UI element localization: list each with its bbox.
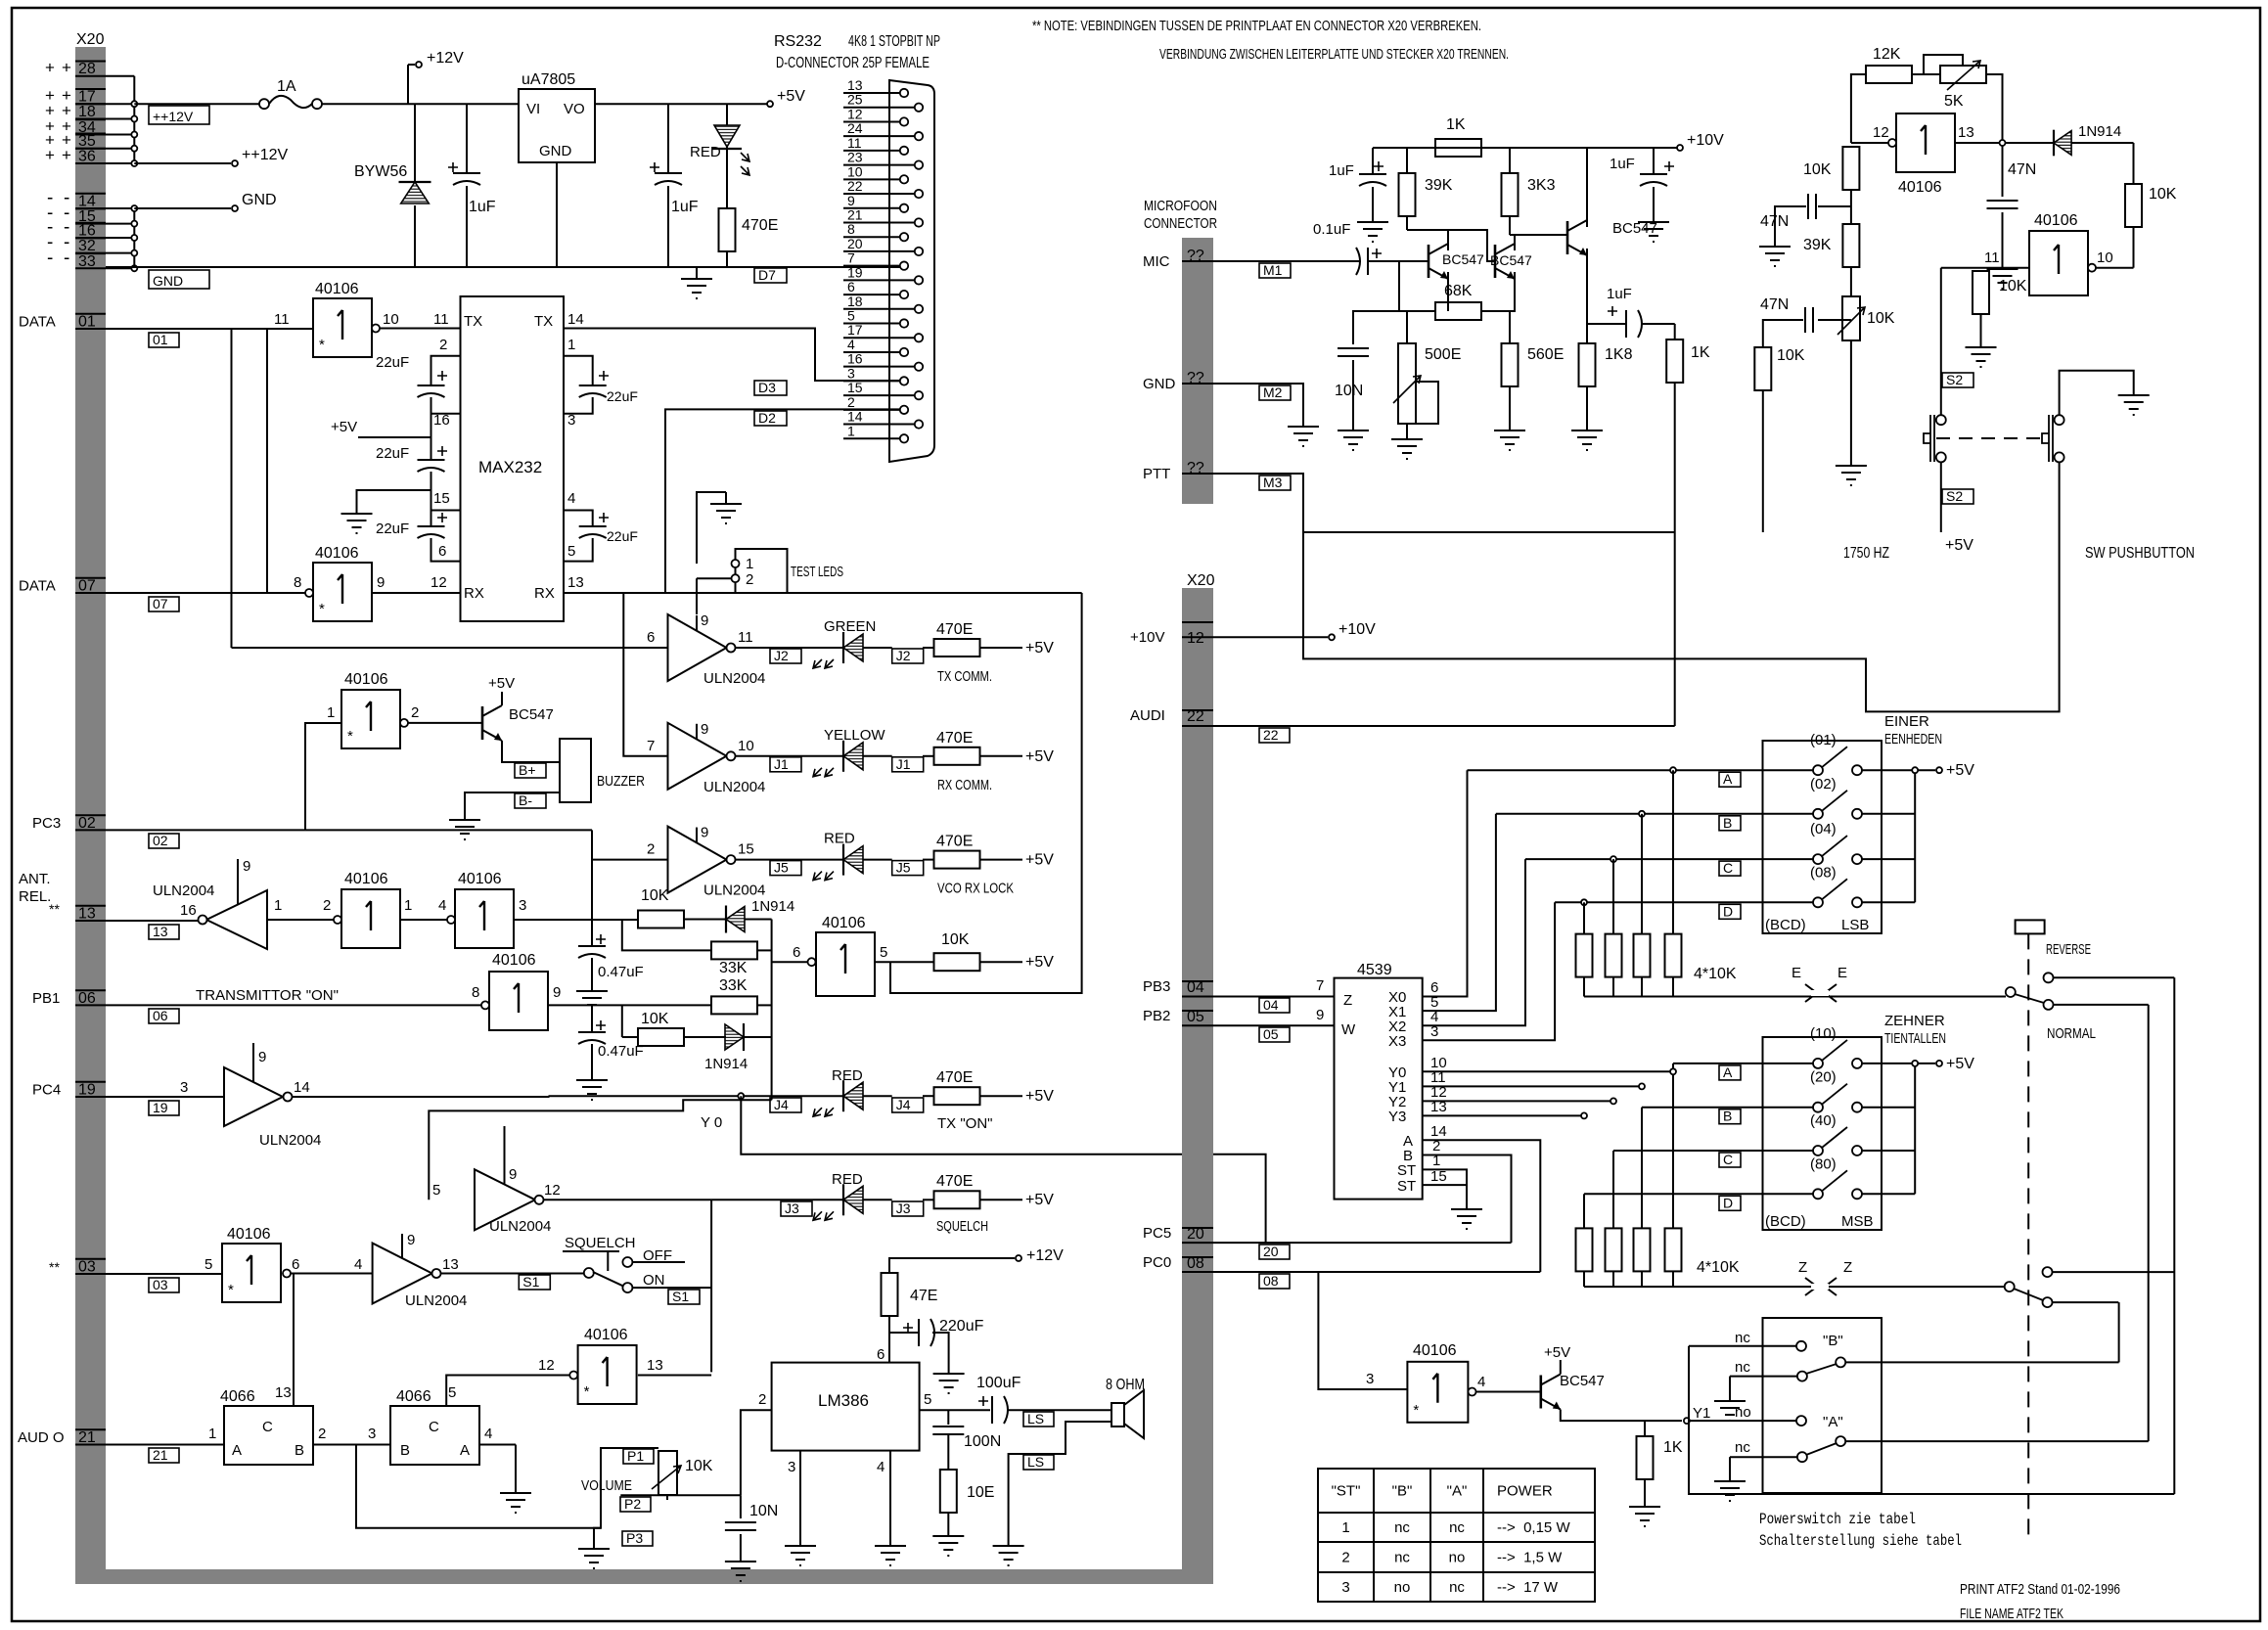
net P2 tag (620, 1497, 651, 1512)
svg-text:+5V: +5V (1025, 748, 1054, 765)
svg-text:11: 11 (738, 629, 753, 646)
resistor 470E (VCO RX LOCK) (923, 859, 934, 861)
svg-text:(80): (80) (1810, 1155, 1837, 1172)
BCD switch block ZEHNER (MSB) (1763, 1037, 1882, 1230)
trimmer 10K (chain) (1842, 296, 1860, 340)
buffer ULN2004 (PC4) (224, 1067, 283, 1126)
svg-text:nc: nc (1394, 1550, 1410, 1566)
D-connector pin 1 (843, 437, 900, 439)
svg-text:47N: 47N (2008, 161, 2036, 178)
wire 40106F out (548, 1004, 711, 1006)
svg-text:RED: RED (832, 1171, 863, 1188)
dashed mechanical link (reverse) (2027, 933, 2029, 1538)
svg-text:MIC: MIC (1143, 253, 1170, 270)
transistor Q2 BC547 (mic 1) (1428, 245, 1430, 278)
svg-text:*: * (228, 1282, 234, 1298)
wire RX COMM. LED row (736, 755, 844, 757)
svg-text:(10): (10) (1810, 1025, 1837, 1042)
svg-text:+12V: +12V (1026, 1247, 1064, 1264)
svg-text:3K3: 3K3 (1527, 177, 1556, 194)
svg-text:13: 13 (78, 906, 96, 923)
svg-text:15: 15 (847, 380, 863, 395)
node +12V terminal (407, 65, 409, 104)
svg-text:CONNECTOR: CONNECTOR (1144, 215, 1217, 232)
transistor Q3 BC547 (mic 2) (1494, 245, 1497, 278)
wire 4066-1 to 4066-2 (313, 1444, 390, 1446)
svg-text:**: ** (49, 1259, 60, 1275)
ground (4539 ST) (1451, 1198, 1482, 1229)
wire to power transistor (1476, 1391, 1541, 1393)
svg-text:+5V: +5V (777, 88, 805, 105)
svg-text:40106: 40106 (458, 871, 502, 887)
svg-text:Schalterstellung siehe tabel: Schalterstellung siehe tabel (1759, 1532, 1962, 1550)
svg-text:22uF: 22uF (376, 354, 409, 371)
svg-text:P2: P2 (624, 1496, 641, 1512)
svg-text:5: 5 (204, 1256, 212, 1273)
svg-text:M2: M2 (1263, 385, 1283, 400)
svg-text:9: 9 (509, 1166, 517, 1183)
net A tag (ZEHNER (10)) (1719, 1065, 1741, 1080)
svg-text:14: 14 (78, 194, 96, 210)
buzzer BZ1 (560, 739, 591, 802)
wire ++12V to fuse (134, 103, 264, 105)
wire test-led pin2 to J2 driver (696, 578, 698, 614)
junction resistor ((02)) (1639, 811, 1645, 817)
svg-text:500E: 500E (1425, 346, 1461, 363)
svg-text:A: A (1723, 1064, 1733, 1080)
net J4 tag (right) (892, 1098, 924, 1112)
svg-text:TX COMM.: TX COMM. (937, 668, 992, 685)
wire GND row to ground (1213, 384, 1303, 415)
svg-text:J3: J3 (785, 1200, 799, 1216)
net J1 tag (left) (770, 757, 801, 772)
svg-text:RX COMM.: RX COMM. (937, 777, 992, 793)
net S1 tag (right) (668, 1290, 700, 1304)
svg-text:ULN2004: ULN2004 (703, 779, 765, 795)
net B+ tag (515, 763, 546, 778)
junction resistor ((08)) (1581, 899, 1587, 905)
svg-text:9: 9 (243, 858, 250, 875)
svg-text:+5V: +5V (1946, 1056, 1974, 1072)
svg-text:nc: nc (1449, 1519, 1465, 1536)
X20 pin 14 (75, 207, 106, 209)
wire osc A out (1955, 142, 2054, 144)
svg-text:B-: B- (519, 792, 532, 808)
svg-text:07: 07 (78, 578, 96, 595)
svg-text:+: + (45, 146, 55, 164)
net D tag (EINER (08)) (1719, 904, 1741, 919)
ground (chain bottom) (1836, 454, 1867, 485)
X20 pin 06 (75, 1004, 106, 1006)
svg-text:1uF: 1uF (1610, 156, 1635, 172)
junction Y tie ((20)) (1612, 1151, 1614, 1228)
svg-text:VOLUME: VOLUME (581, 1477, 632, 1494)
wire 500E wiper loop (1407, 382, 1438, 424)
svg-text:3: 3 (1430, 1023, 1438, 1040)
svg-text:1K: 1K (1446, 116, 1466, 133)
svg-text:470E: 470E (936, 730, 973, 747)
ground (mic gnd) (1288, 415, 1319, 446)
D-connector pin 9 (843, 207, 900, 209)
BCD switch block EINER (LSB) (1763, 741, 1882, 933)
resistor bank 4x10K (upper) (1583, 902, 1585, 933)
svg-text:M1: M1 (1263, 262, 1283, 278)
svg-text:6: 6 (292, 1256, 299, 1273)
svg-text:11: 11 (433, 311, 449, 328)
wire A out to NORMAL vertical (1845, 1440, 2149, 1442)
bottom grey bus bar (75, 1569, 1213, 1584)
transistor Q5 BC547 (power) (1540, 1376, 1543, 1409)
svg-text:LSB: LSB (1841, 917, 1869, 933)
svg-text:++12V: ++12V (153, 109, 194, 124)
wire PTT row (1213, 462, 2060, 711)
wire speaker return (1009, 1422, 1111, 1534)
ground (500E) (1406, 424, 1408, 428)
wire 40106D input to 4066-2 ctrl (446, 1376, 569, 1407)
LED RED (TX ON) (842, 1080, 844, 1111)
svg-text:PB2: PB2 (1143, 1008, 1170, 1024)
D-connector pin 25 (843, 107, 915, 109)
wire PB2 row to 4539 W (1213, 1024, 1335, 1026)
feedback wire from RX line (890, 593, 1082, 993)
svg-text:9: 9 (553, 984, 561, 1001)
svg-text:470E: 470E (936, 621, 973, 638)
ground (47N chain2) (1759, 235, 1791, 266)
svg-text:(BCD): (BCD) (1765, 1213, 1806, 1230)
svg-text:BC547: BC547 (509, 706, 554, 723)
resistor 10K (left chain) (1842, 147, 1859, 190)
svg-text:47N: 47N (1760, 213, 1789, 230)
wire 4066-1 ctrl pin13 (293, 1274, 295, 1407)
D-connector pin 11 (843, 150, 900, 152)
net LS tag (top) (1023, 1412, 1054, 1426)
switch REVERSE throw (2044, 973, 2054, 982)
D-connector pin 3 (843, 380, 900, 382)
resistor bank 4x10K (lower) (1672, 1064, 1674, 1229)
wire B- to ground (465, 792, 560, 808)
svg-text:10: 10 (738, 738, 754, 754)
wire mic1 emitter (1447, 272, 1449, 311)
svg-text:06: 06 (78, 990, 96, 1007)
net J3 tag (left) (781, 1201, 812, 1216)
svg-text:10N: 10N (749, 1503, 778, 1519)
capacitor 1uF (output) (667, 104, 669, 172)
svg-text:B: B (1723, 1109, 1732, 1124)
D-connector pin 4 (843, 351, 900, 353)
svg-text:4066: 4066 (396, 1388, 431, 1405)
D-connector pin 2 (843, 409, 900, 411)
svg-text:22uF: 22uF (376, 521, 409, 537)
svg-text:4: 4 (484, 1426, 492, 1442)
wire B nc loop (1689, 1346, 2174, 1494)
svg-text:9: 9 (1316, 1007, 1324, 1023)
svg-text:S2: S2 (1946, 372, 1963, 387)
diode 1N914 (osc) (2053, 130, 2055, 157)
svg-text:10E: 10E (967, 1484, 994, 1501)
net J2 tag (left) (770, 649, 801, 663)
svg-text:1A: 1A (277, 78, 296, 95)
svg-text:13: 13 (1958, 124, 1974, 141)
svg-text:+5V: +5V (1025, 954, 1054, 971)
svg-text:5: 5 (924, 1391, 931, 1408)
svg-text:9: 9 (258, 1049, 266, 1065)
wire input J2 driver (from DATA01) (232, 647, 668, 649)
resistor 470E (TX ON) (923, 1095, 934, 1097)
wire S2 vertical (1940, 268, 1942, 415)
svg-text:10K: 10K (1867, 310, 1895, 327)
svg-text:AUD O: AUD O (18, 1429, 65, 1446)
net 08 tag (1259, 1274, 1290, 1289)
D-connector 25P shell (889, 80, 934, 462)
resistor 1K8 (1579, 343, 1596, 386)
svg-text:Z: Z (1843, 1259, 1852, 1276)
svg-text:+10V: +10V (1687, 132, 1724, 149)
wire PB3 row to 4539 Z (1213, 996, 1335, 998)
svg-text:SQUELCH: SQUELCH (936, 1218, 988, 1235)
svg-text:20: 20 (1263, 1244, 1279, 1259)
svg-text:"ST": "ST" (1332, 1483, 1361, 1500)
svg-text:2: 2 (847, 394, 855, 410)
svg-text:J2: J2 (774, 648, 789, 663)
svg-text:13: 13 (153, 924, 168, 939)
svg-text:LS: LS (1027, 1411, 1044, 1426)
svg-text:NORMAL: NORMAL (2047, 1025, 2096, 1042)
ground (10N mic) (1338, 419, 1369, 450)
TEST LEDS header (736, 549, 788, 593)
X20 pin 21 (75, 1444, 106, 1446)
svg-text:Z: Z (1798, 1259, 1807, 1276)
wire DATA01-DATA07 link (266, 329, 268, 593)
diode 1N914 (upper) (684, 919, 727, 921)
X20 pin 16 (75, 237, 106, 239)
wire 5K to node (1986, 74, 2003, 140)
svg-text:PB3: PB3 (1143, 978, 1170, 995)
svg-text:D: D (1723, 903, 1733, 919)
net P3 tag (622, 1531, 653, 1546)
wire stage B out (514, 919, 638, 921)
svg-text:P1: P1 (627, 1448, 644, 1464)
D-connector pin 20 (843, 250, 915, 252)
svg-text:0.1uF: 0.1uF (1313, 221, 1350, 238)
svg-text:Powerswitch zie tabel: Powerswitch zie tabel (1759, 1511, 1916, 1528)
LED RED (power) (726, 104, 728, 125)
svg-text:9: 9 (407, 1232, 415, 1248)
wire 12K-5K link (1912, 73, 1940, 75)
svg-text:+12V: +12V (427, 50, 464, 67)
svg-text:21: 21 (153, 1447, 168, 1463)
svg-text:9: 9 (847, 193, 855, 208)
svg-text:1uF: 1uF (1607, 286, 1632, 302)
LED GREEN (TX COMM.) (842, 632, 844, 663)
svg-text:A: A (232, 1442, 242, 1459)
svg-text:22uF: 22uF (376, 445, 409, 462)
LED YELLOW (RX COMM.) (842, 741, 844, 772)
svg-text:+: + (62, 146, 71, 164)
capacitor 22uF (pin15-6) (418, 526, 445, 538)
svg-text:13: 13 (847, 77, 863, 93)
wire squelch LED row (544, 1199, 844, 1200)
svg-text:FILE NAME ATF2 TEK: FILE NAME ATF2 TEK (1960, 1606, 2064, 1622)
svg-text:15: 15 (738, 841, 754, 858)
svg-text:ST: ST (1397, 1162, 1416, 1179)
svg-text:MSB: MSB (1841, 1213, 1874, 1230)
svg-text:REVERSE: REVERSE (2046, 941, 2091, 958)
svg-text:40106: 40106 (344, 671, 388, 688)
terminal +10V (mic) (1677, 145, 1683, 151)
D-connector pin 14 (843, 424, 915, 426)
svg-text:47N: 47N (1760, 296, 1789, 313)
svg-text:13: 13 (275, 1384, 292, 1401)
svg-text:40106: 40106 (315, 545, 359, 562)
capacitor 22uF (pin2-16) (418, 385, 445, 397)
X20 pin 36 (75, 162, 106, 164)
wire ** 03 row (149, 1278, 179, 1292)
D-connector pin 15 (843, 394, 915, 396)
svg-text:22: 22 (847, 178, 863, 194)
svg-text:10: 10 (847, 163, 863, 179)
X20 pin 02 (75, 829, 106, 831)
trimmer 500E (1406, 311, 1408, 343)
svg-text:14: 14 (294, 1079, 310, 1096)
wire emitter to B+ tag (502, 741, 560, 762)
svg-text:08: 08 (1263, 1273, 1279, 1289)
svg-text:18: 18 (847, 294, 863, 309)
capacitor 1uF (mic left) (1372, 148, 1374, 173)
svg-text:25: 25 (847, 92, 863, 108)
power table (1318, 1469, 1595, 1602)
svg-text:(20): (20) (1810, 1069, 1837, 1086)
pushbutton S2 (right) (2055, 415, 2064, 425)
svg-text:M3: M3 (1263, 475, 1283, 490)
svg-text:PC3: PC3 (32, 815, 61, 832)
wire interstage 2 (1510, 235, 1567, 238)
svg-text:10K: 10K (2149, 186, 2177, 203)
capacitor 0.47uF (upper) (591, 920, 593, 945)
svg-text:ULN2004: ULN2004 (259, 1132, 321, 1149)
net J1 tag (right) (892, 757, 924, 772)
svg-text:RX: RX (534, 585, 555, 602)
svg-text:470E: 470E (936, 1069, 973, 1086)
svg-text:470E: 470E (742, 217, 778, 234)
switch A pole/lever (1797, 1452, 1807, 1462)
svg-text:19: 19 (78, 1082, 96, 1099)
svg-text:X20: X20 (1187, 572, 1215, 589)
svg-text:1K8: 1K8 (1605, 346, 1633, 363)
svg-text:+5V: +5V (488, 675, 515, 692)
ground (speaker) (993, 1534, 1024, 1565)
svg-text:PC4: PC4 (32, 1082, 61, 1099)
svg-text:+5V: +5V (1025, 1192, 1054, 1208)
svg-text:GREEN: GREEN (824, 618, 876, 635)
svg-text:+5V: +5V (1544, 1344, 1570, 1361)
ground (1K power) (1629, 1495, 1660, 1526)
svg-text:9: 9 (701, 721, 708, 738)
svg-text:++12V: ++12V (242, 147, 288, 163)
svg-text:1750 HZ: 1750 HZ (1843, 545, 1889, 562)
switch row (08) EINER (1555, 901, 1813, 903)
arrows E rail (1805, 984, 1837, 1002)
rail Z (zehner) (1584, 1286, 2005, 1288)
D-connector pin 13 (843, 92, 900, 94)
ground (0.47uF lower) (576, 1068, 608, 1100)
wire 40106G to 10K pullup (875, 961, 934, 963)
svg-text:5: 5 (567, 543, 575, 560)
svg-text:ULN2004: ULN2004 (703, 670, 765, 687)
D-connector pin 6 (843, 294, 900, 295)
LED RED (squelch) (842, 1184, 844, 1215)
svg-text:10K: 10K (941, 931, 970, 948)
resistor 10K (S2 pulldown) (1973, 271, 1989, 314)
svg-text:24: 24 (847, 120, 863, 136)
svg-text:D7: D7 (758, 267, 776, 283)
svg-text:C: C (1723, 860, 1733, 876)
svg-text:9: 9 (701, 612, 708, 629)
svg-text:07: 07 (153, 596, 168, 611)
svg-text:40106: 40106 (227, 1226, 271, 1243)
svg-text:PRINT ATF2 Stand 01-02-1996: PRINT ATF2 Stand 01-02-1996 (1960, 1581, 2120, 1598)
microfoon connector grey bar (1182, 238, 1213, 504)
svg-text:7: 7 (647, 738, 655, 754)
svg-text:AUDI: AUDI (1130, 707, 1165, 724)
svg-text:3: 3 (519, 897, 526, 914)
svg-text:1K: 1K (1663, 1439, 1683, 1456)
wire osc B input (1941, 267, 2029, 269)
svg-text:(BCD): (BCD) (1765, 917, 1806, 933)
resistor 10K (osc right) (2133, 143, 2135, 184)
terminal +5V (regulator output) (767, 101, 773, 107)
wire input J1 driver (from RX line) (623, 593, 667, 756)
wire PTT to mic node (1303, 531, 1675, 533)
svg-text:3: 3 (1366, 1371, 1374, 1387)
junction Y tie ((80)) (1670, 1068, 1676, 1074)
svg-text:A: A (460, 1442, 470, 1459)
svg-text:S1: S1 (522, 1274, 539, 1290)
svg-text:+5V: +5V (1946, 762, 1974, 779)
resistor 33K (lower) (711, 996, 757, 1014)
resistor 470E (RX COMM.) (923, 755, 934, 757)
diode 1N914 (lower) (684, 1036, 727, 1038)
ground symbol on rail (681, 267, 712, 298)
svg-text:no: no (1394, 1579, 1411, 1596)
resistor 10K (pullup +5V) (934, 953, 980, 971)
junction Y tie ((40)) (1583, 1194, 1585, 1228)
ground (test leds) (697, 492, 726, 564)
svg-text:1: 1 (847, 423, 855, 438)
net M2 tag (1259, 385, 1291, 400)
wire MIC row (1213, 260, 1360, 262)
wire PC4 19 row (149, 1101, 179, 1115)
svg-text:E: E (1792, 965, 1801, 981)
svg-text:14: 14 (567, 311, 584, 328)
svg-text:40106: 40106 (584, 1327, 628, 1343)
svg-text:1: 1 (567, 337, 575, 353)
svg-text:*: * (1413, 1402, 1419, 1419)
connector X20 (lower) grey bar (1182, 588, 1213, 1569)
LED RED (VCO RX LOCK) (842, 844, 844, 876)
svg-text:X20: X20 (76, 31, 105, 48)
LM386 pin3 ground (799, 1451, 801, 1534)
svg-text:4539: 4539 (1357, 962, 1392, 978)
wire interstage 1 (1448, 230, 1495, 261)
svg-text:ST: ST (1397, 1178, 1416, 1195)
svg-text:40106: 40106 (1413, 1342, 1457, 1359)
capacitor 100N (947, 1410, 949, 1425)
D-connector pin 18 (843, 308, 915, 310)
wire volume bottom to ground (594, 1528, 601, 1537)
wire mic3 collector to rail (1586, 148, 1588, 227)
svg-text:+: + (45, 59, 55, 77)
transistor Q1 BC547 (buzzer) (481, 706, 484, 740)
